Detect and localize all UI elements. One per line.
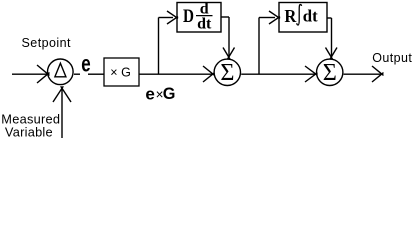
- arrowhead down into sum2 top: [326, 48, 338, 60]
- svg-text:Σ: Σ: [220, 59, 234, 86]
- svg-text:dt: dt: [303, 6, 318, 25]
- wire branch up to integral block: [259, 18, 275, 75]
- svg-text:Σ: Σ: [323, 59, 337, 86]
- delta symbol: [55, 63, 66, 77]
- svg-text:× G: × G: [110, 66, 131, 80]
- arrowhead into derivative block: [167, 11, 178, 24]
- gain block box: [104, 58, 139, 86]
- wire delta to gain box (broken by e label): [74, 73, 104, 75]
- svg-text:D: D: [183, 5, 194, 26]
- svg-text:Variable: Variable: [5, 125, 53, 140]
- svg-text:Output: Output: [372, 51, 412, 65]
- integral block box R int dt: [279, 3, 327, 33]
- arrowhead into sum2 left: [305, 66, 318, 82]
- arrowhead output: [372, 66, 384, 82]
- wire branch up to derivative block: [159, 18, 174, 75]
- wire sum1 to sum2: [241, 73, 316, 75]
- arrowhead into delta junction (left): [37, 65, 50, 83]
- label Measured Variable: [1, 112, 60, 140]
- svg-text:Setpoint: Setpoint: [22, 36, 72, 50]
- wire gain box to sum1: [139, 73, 213, 75]
- svg-text:G: G: [163, 85, 176, 103]
- wire output: [344, 73, 381, 75]
- arrowhead down into sum1 top: [223, 48, 235, 60]
- summing junction sigma 1: [214, 59, 240, 85]
- label e x G: [145, 84, 175, 103]
- svg-text:e: e: [145, 84, 154, 103]
- label R integral dt: [284, 5, 318, 27]
- wire integral output down to sum2: [327, 18, 332, 57]
- derivative block box D d/dt: [177, 3, 221, 33]
- svg-text:e: e: [81, 51, 90, 77]
- wire derivative output down to sum1: [221, 17, 229, 57]
- wire setpoint input: [12, 73, 47, 75]
- svg-text:R: R: [284, 7, 297, 27]
- summing junction delta circle: [48, 59, 74, 85]
- summing junction sigma 2: [317, 59, 343, 85]
- label D d/dt: [183, 1, 213, 33]
- svg-text:dt: dt: [197, 16, 212, 33]
- arrowhead into sum1 left: [203, 66, 215, 82]
- arrowhead into integral block: [269, 11, 280, 24]
- arrowhead up into delta junction (bottom): [53, 86, 71, 102]
- wire measured variable input: [61, 88, 63, 138]
